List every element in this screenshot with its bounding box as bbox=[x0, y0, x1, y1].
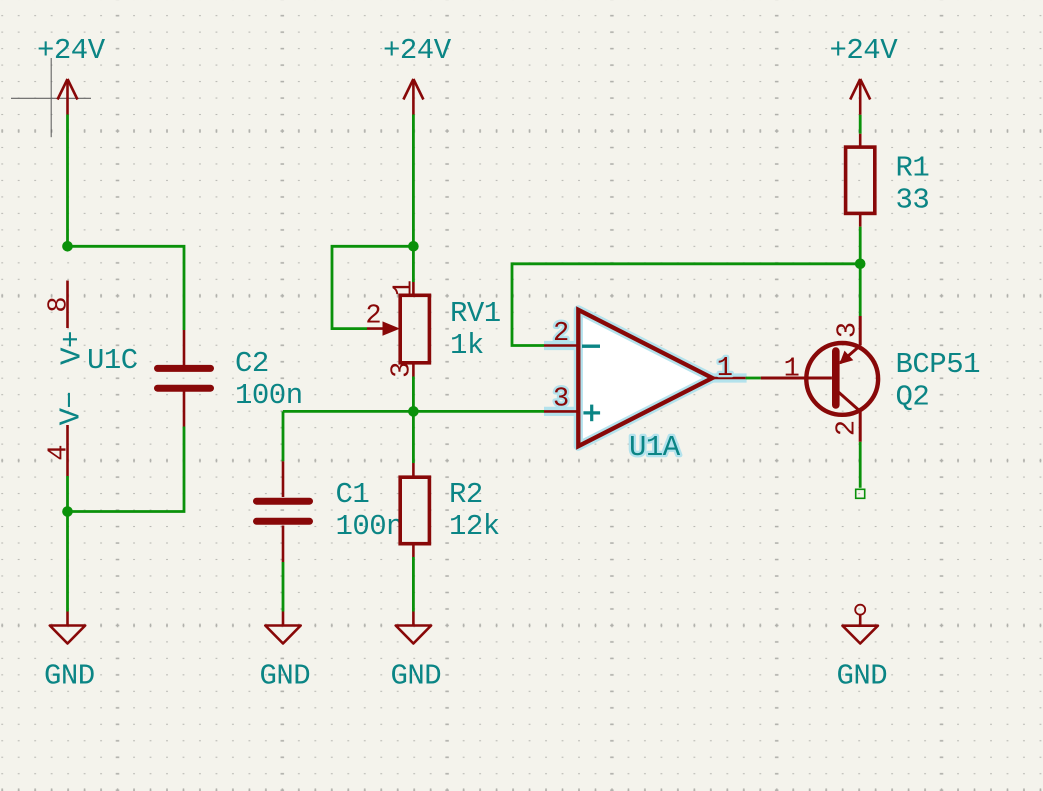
svg-text:8: 8 bbox=[45, 296, 75, 312]
svg-text:12k: 12k bbox=[449, 510, 500, 543]
power symbol +24V (right) bbox=[830, 34, 899, 115]
wire junction to C2 top bbox=[68, 246, 185, 330]
wire bottom of C2 loop bbox=[68, 427, 185, 512]
wire RV1 pin3 to junction bbox=[412, 377, 415, 412]
pin top bbox=[282, 461, 285, 497]
pin bottom bbox=[183, 392, 186, 427]
svg-text:2: 2 bbox=[365, 301, 381, 331]
svg-text:C1: C1 bbox=[336, 478, 370, 511]
base pin bbox=[761, 377, 832, 380]
wire main horizontal net bbox=[283, 410, 544, 413]
wire RV1 wiper loop bbox=[332, 246, 413, 328]
transistor Q2 BCP51 bbox=[761, 316, 980, 442]
svg-text:V−: V− bbox=[55, 392, 88, 426]
svg-text:GND: GND bbox=[44, 660, 95, 693]
wire left +24V rail down bbox=[66, 115, 69, 247]
body circle bbox=[806, 343, 878, 415]
wire middle +24V rail down bbox=[412, 115, 415, 247]
pin top bbox=[412, 463, 415, 477]
triangle body bbox=[578, 310, 712, 446]
power symbol +24V (middle) bbox=[383, 34, 452, 115]
base bar bbox=[832, 351, 840, 405]
capacitor C2 bbox=[158, 330, 303, 427]
pin 2 wiper bbox=[367, 327, 385, 330]
pin 2 line bbox=[544, 344, 578, 347]
pin 1 line bbox=[712, 377, 745, 380]
wire down to C1 bbox=[282, 411, 285, 461]
plate bottom bbox=[158, 385, 211, 392]
svg-text:C2: C2 bbox=[235, 347, 269, 380]
wire pin4 to bottom junction bbox=[66, 476, 69, 512]
svg-text:100n: 100n bbox=[235, 379, 303, 412]
svg-text:R1: R1 bbox=[896, 152, 930, 185]
resistor R2 bbox=[400, 411, 500, 557]
collector line bbox=[838, 392, 861, 412]
svg-text:2: 2 bbox=[553, 319, 569, 349]
wire junction to RV1 pin1 bbox=[412, 246, 415, 282]
wire Q2 collector down bbox=[859, 442, 862, 488]
svg-text:BCP51: BCP51 bbox=[896, 348, 981, 381]
wire R1 to junction bbox=[859, 227, 862, 264]
ground symbol (right, unconnected) bbox=[837, 605, 888, 693]
pin bottom bbox=[282, 526, 285, 563]
pin 3 bbox=[412, 363, 415, 377]
wire junction to R2 bbox=[412, 411, 415, 463]
svg-text:+24V: +24V bbox=[830, 34, 899, 67]
svg-text:4: 4 bbox=[45, 445, 75, 461]
svg-text:1k: 1k bbox=[450, 329, 484, 362]
op-amp U1A (selected with halo) bbox=[544, 310, 747, 464]
svg-text:1: 1 bbox=[784, 355, 800, 385]
ground symbol (C1) bbox=[260, 612, 311, 693]
wiper arrow bbox=[383, 321, 401, 335]
svg-text:U1C: U1C bbox=[87, 344, 138, 377]
svg-text:3: 3 bbox=[834, 322, 864, 338]
wire R2 to GND bbox=[412, 557, 415, 612]
ground symbol (left) bbox=[44, 512, 95, 693]
pin top bbox=[859, 134, 862, 147]
svg-text:U1A: U1A bbox=[629, 431, 681, 464]
pin 8 bbox=[66, 281, 69, 329]
svg-text:100n: 100n bbox=[336, 510, 404, 543]
sheet origin crosshair bbox=[11, 58, 91, 137]
body bbox=[400, 477, 429, 544]
unconnected wire end marker bbox=[856, 489, 865, 498]
svg-text:2: 2 bbox=[833, 420, 863, 436]
plate top bbox=[158, 365, 211, 372]
wire emitter to junction bbox=[859, 264, 862, 316]
capacitor C1 bbox=[257, 461, 404, 562]
pin bottom bbox=[412, 544, 415, 557]
minus sign bbox=[582, 345, 600, 348]
plate top bbox=[257, 498, 310, 505]
svg-text:GND: GND bbox=[837, 660, 888, 693]
pin 1 bbox=[412, 282, 415, 295]
junction left bottom bbox=[62, 506, 73, 517]
junction right bbox=[855, 259, 866, 270]
svg-text:Q2: Q2 bbox=[896, 381, 930, 414]
svg-text:33: 33 bbox=[896, 184, 930, 217]
body bbox=[400, 295, 429, 363]
pin top bbox=[183, 330, 186, 365]
potentiometer RV1 bbox=[365, 280, 500, 378]
svg-text:GND: GND bbox=[260, 660, 311, 693]
wire op-amp output to Q2 base bbox=[746, 377, 761, 380]
wire +24V to R1 bbox=[859, 115, 862, 134]
junction left top bbox=[62, 241, 73, 252]
svg-text:V+: V+ bbox=[56, 331, 89, 365]
wire C1 to GND bbox=[282, 562, 285, 612]
op-amp power unit U1C bbox=[45, 281, 138, 477]
svg-text:GND: GND bbox=[391, 660, 442, 693]
svg-text:+24V: +24V bbox=[383, 34, 452, 67]
power symbol +24V (left) bbox=[37, 34, 106, 115]
emitter line bbox=[840, 345, 860, 363]
emitter arrow bbox=[839, 351, 853, 365]
junction middle bottom bbox=[408, 406, 419, 417]
plate bottom bbox=[257, 518, 310, 525]
resistor R1 bbox=[846, 134, 930, 227]
plus sign bbox=[583, 405, 600, 422]
pin 3 line bbox=[544, 410, 578, 413]
svg-text:R2: R2 bbox=[449, 478, 483, 511]
selection halo bbox=[578, 310, 712, 446]
emitter stub bbox=[859, 316, 862, 345]
svg-text:3: 3 bbox=[553, 384, 569, 414]
ground symbol (R2) bbox=[391, 612, 442, 693]
pin bottom bbox=[859, 213, 862, 226]
svg-text:RV1: RV1 bbox=[450, 297, 501, 330]
svg-text:+24V: +24V bbox=[37, 34, 106, 67]
junction middle top bbox=[408, 241, 419, 252]
svg-text:3: 3 bbox=[388, 362, 418, 378]
wire feedback net bbox=[512, 264, 860, 346]
svg-text:1: 1 bbox=[717, 354, 733, 384]
body bbox=[846, 147, 875, 213]
collector stub bbox=[859, 411, 862, 442]
pin 4 bbox=[66, 425, 69, 476]
